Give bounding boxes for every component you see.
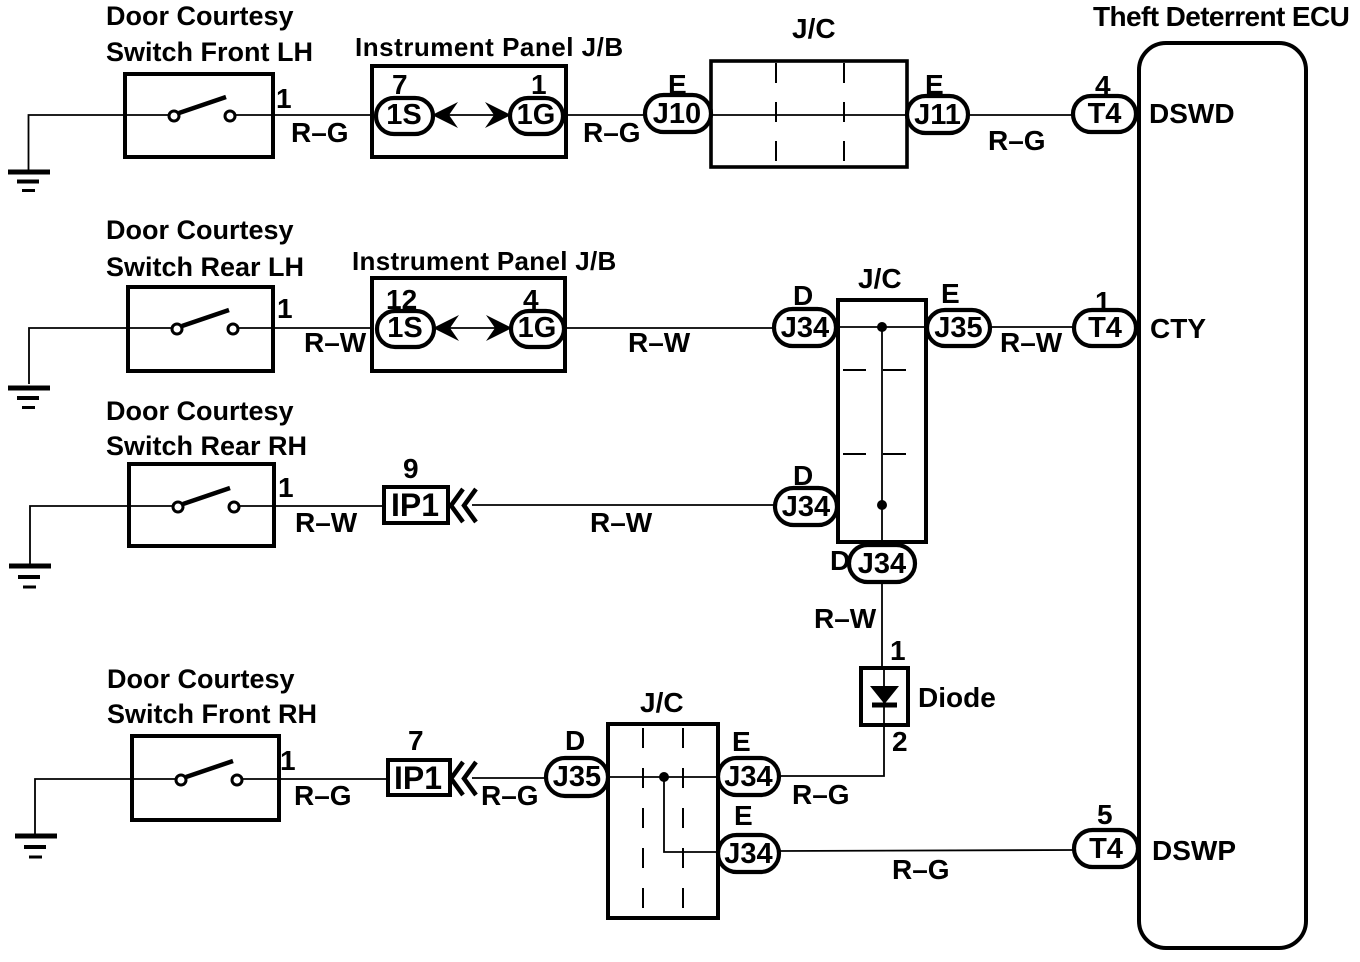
connector J34 (row4 upper)	[718, 758, 779, 795]
label: Door Courtesy Switch Front LH	[106, 1, 313, 67]
wire: IP1 to J34 (R-W)	[472, 504, 779, 506]
wire: lower J34 to T4 pin5 (R-G)	[779, 850, 1074, 851]
svg-text:J/C: J/C	[640, 687, 684, 718]
svg-text:5: 5	[1097, 799, 1113, 830]
node: junction dot row3	[877, 500, 887, 510]
junction connector J/C (row4)	[608, 724, 718, 918]
svg-text:J34: J34	[724, 838, 772, 870]
svg-text:9: 9	[403, 453, 419, 484]
svg-text:R–G: R–G	[988, 125, 1046, 156]
svg-text:1: 1	[890, 635, 906, 666]
connector 1S (pin 12)	[377, 311, 434, 347]
svg-text:Switch Front RH: Switch Front RH	[107, 699, 317, 729]
connector IP1 (pin 7)	[388, 760, 450, 796]
svg-text:DSWD: DSWD	[1149, 98, 1235, 129]
svg-text:E: E	[732, 726, 751, 757]
ground symbol G2	[8, 388, 50, 408]
svg-text:7: 7	[408, 725, 424, 756]
connector 1G (pin 4)	[511, 311, 564, 347]
wire: ground to switch S1	[29, 115, 126, 171]
svg-text:1S: 1S	[387, 312, 422, 344]
node: junction dot row2	[877, 322, 887, 332]
svg-text:R–G: R–G	[481, 780, 539, 811]
wire: diode pin2 down and left to J34 (row4 upper)	[780, 725, 884, 776]
wire: ground to switch S3	[30, 506, 129, 564]
svg-text:Door Courtesy: Door Courtesy	[107, 664, 295, 694]
wire: ground to switch S2	[29, 328, 128, 384]
svg-text:T4: T4	[1088, 98, 1122, 130]
svg-text:Switch Rear RH: Switch Rear RH	[106, 431, 307, 461]
svg-text:1: 1	[278, 472, 294, 503]
svg-text:1G: 1G	[518, 312, 557, 344]
svg-text:1S: 1S	[386, 99, 421, 131]
svg-text:J/C: J/C	[858, 263, 902, 294]
wire: J/B to J34 (R-W)	[564, 327, 779, 329]
wire: branch inside J/C to lower J34	[664, 777, 718, 852]
svg-text:J35: J35	[553, 761, 601, 793]
junction block Instrument Panel J/B (row2)	[372, 278, 565, 371]
wire: S3 to IP1 (R-W)	[274, 505, 384, 507]
wire: vertical bus inside J/C down to diode	[881, 327, 883, 668]
svg-text:T4: T4	[1089, 833, 1123, 865]
svg-text:Door Courtesy: Door Courtesy	[106, 396, 294, 426]
svg-text:J11: J11	[914, 99, 961, 131]
connector chevrons row3	[451, 489, 476, 522]
svg-text:J34: J34	[858, 548, 906, 580]
svg-text:IP1: IP1	[394, 760, 442, 796]
diode D1	[861, 668, 908, 725]
switch S1 Door Courtesy Switch Front LH	[125, 74, 273, 157]
svg-text:CTY: CTY	[1150, 313, 1206, 344]
svg-text:J34: J34	[782, 491, 830, 523]
junction connector J/C (rows 2-3)	[838, 300, 926, 542]
svg-text:Switch Front LH: Switch Front LH	[106, 37, 313, 67]
label: Door Courtesy Switch Rear LH	[106, 215, 304, 282]
ground symbol G3	[9, 566, 51, 587]
svg-text:Theft Deterrent ECU: Theft Deterrent ECU	[1093, 1, 1349, 32]
connector T4 (pin 4)	[1073, 96, 1136, 132]
svg-text:R–G: R–G	[291, 117, 349, 148]
wire: ground to switch S4	[35, 779, 132, 834]
connector T4 (pin 1)	[1074, 310, 1136, 346]
switch S3 Door Courtesy Switch Rear RH	[129, 464, 274, 546]
svg-text:J10: J10	[653, 98, 701, 130]
wire: S2 to J/B (R-W)	[273, 327, 372, 329]
label: Door Courtesy Switch Front RH	[107, 664, 317, 729]
svg-text:D: D	[793, 280, 813, 311]
switch S2 Door Courtesy Switch Rear LH	[128, 287, 273, 371]
node: junction dot row4	[659, 772, 669, 782]
connector IP1 (pin 9)	[384, 487, 448, 523]
svg-text:J34: J34	[724, 761, 772, 793]
svg-text:1: 1	[277, 293, 293, 324]
ECU block Theft Deterrent ECU	[1139, 43, 1306, 948]
svg-text:Switch Rear LH: Switch Rear LH	[106, 252, 304, 282]
svg-text:R–G: R–G	[583, 117, 641, 148]
wire: IP1 to J35 (R-G)	[472, 777, 549, 779]
connector mating arrows row1	[432, 102, 511, 128]
connector J34 (row2)	[774, 309, 836, 346]
svg-text:1: 1	[276, 83, 292, 114]
svg-text:Door Courtesy: Door Courtesy	[106, 215, 294, 245]
wire: J11 to T4 pin4 (R-G)	[968, 114, 1074, 116]
svg-text:1G: 1G	[517, 99, 556, 131]
svg-text:R–W: R–W	[814, 603, 877, 634]
connector J35 (row4)	[546, 758, 608, 796]
connector chevrons row4	[451, 762, 476, 795]
svg-text:1: 1	[280, 745, 296, 776]
svg-text:IP1: IP1	[391, 487, 439, 523]
wire: J/B to J10 (R-G)	[563, 114, 648, 116]
svg-text:R–W: R–W	[295, 507, 358, 538]
svg-text:R–G: R–G	[792, 779, 850, 810]
ground symbol G4	[15, 836, 57, 857]
svg-text:R–G: R–G	[892, 854, 950, 885]
svg-text:Instrument Panel J/B: Instrument Panel J/B	[352, 246, 617, 276]
label: Door Courtesy Switch Rear RH	[106, 396, 307, 461]
svg-text:1: 1	[531, 69, 547, 100]
junction connector J/C (row1)	[711, 61, 907, 167]
svg-text:D: D	[565, 725, 585, 756]
svg-text:R–G: R–G	[294, 780, 352, 811]
connector J34 (row3)	[775, 488, 837, 525]
svg-text:J/C: J/C	[792, 13, 836, 44]
svg-text:Instrument Panel J/B: Instrument Panel J/B	[355, 32, 624, 62]
svg-text:R–W: R–W	[628, 327, 691, 358]
svg-text:R–W: R–W	[1000, 327, 1063, 358]
connector T4 (pin 5)	[1074, 830, 1138, 867]
svg-text:T4: T4	[1088, 312, 1122, 344]
svg-text:J34: J34	[781, 312, 829, 344]
svg-text:E: E	[734, 800, 753, 831]
connector J34 (row4 lower)	[718, 835, 779, 872]
ground symbol G1	[8, 172, 50, 191]
connector J34 (below J/C)	[849, 545, 915, 582]
connector J10	[645, 95, 711, 132]
connector 1S (pin 7)	[376, 98, 433, 134]
wire: S4 to IP1 (R-G)	[279, 778, 388, 780]
svg-text:2: 2	[892, 726, 908, 757]
connector J11	[907, 96, 968, 133]
wire: S1 to J/B (R-G)	[273, 114, 372, 116]
switch S4 Door Courtesy Switch Front RH	[132, 736, 279, 820]
connector J35 (row2)	[927, 310, 990, 346]
connector 1G (pin 1)	[510, 98, 563, 134]
junction block Instrument Panel J/B (row1)	[372, 66, 566, 157]
connector mating arrows row2	[433, 315, 512, 341]
svg-text:R–W: R–W	[304, 327, 367, 358]
svg-text:J35: J35	[934, 312, 982, 344]
svg-text:DSWP: DSWP	[1152, 835, 1236, 866]
wire: J35 to T4 pin1 (R-W)	[990, 326, 1074, 328]
svg-text:Diode: Diode	[918, 682, 996, 713]
svg-text:R–W: R–W	[590, 507, 653, 538]
svg-text:7: 7	[392, 69, 408, 100]
svg-text:Door Courtesy: Door Courtesy	[106, 1, 294, 31]
svg-text:E: E	[941, 278, 960, 309]
